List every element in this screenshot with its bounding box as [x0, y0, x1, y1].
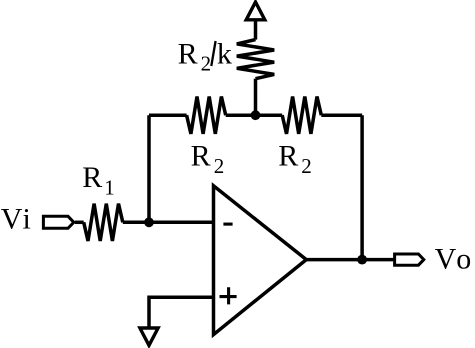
svg-text:2: 2	[214, 154, 225, 178]
wire: between left R2 and node B	[226, 113, 283, 117]
svg-text:k: k	[217, 37, 232, 70]
node C (output junction)	[357, 255, 367, 265]
resistor R1	[84, 204, 123, 241]
svg-text:R: R	[178, 37, 198, 70]
resistor R2 (right, horizontal)	[282, 97, 321, 134]
wire: R2/k down to node B	[254, 79, 258, 116]
wire: R1 to node A to op-amp inverting input	[123, 221, 214, 225]
wire: left vertical (feedback rail down to node A)	[147, 115, 151, 222]
svg-text:Vo: Vo	[435, 242, 472, 275]
op-amp minus sign	[223, 223, 232, 226]
ground symbol	[140, 328, 158, 345]
wire: power arrow to R2/k	[254, 20, 258, 40]
wire: feedback rail left segment (node A to R2 left)	[149, 113, 187, 117]
input port symbol (Vi)	[43, 216, 73, 228]
svg-text:R: R	[278, 140, 298, 173]
svg-text:Vi: Vi	[1, 202, 31, 235]
op-amp plus sign	[220, 287, 237, 304]
resistor R2 (left, horizontal)	[187, 97, 226, 134]
svg-text:R: R	[82, 161, 102, 194]
wire: op-amp output to output node and Vo port	[306, 258, 393, 262]
svg-text:2: 2	[301, 154, 312, 178]
wire: right vertical (feedback rail down to output node)	[360, 115, 364, 259]
svg-text:R: R	[191, 140, 211, 173]
node B (R2/R2/R2k junction)	[251, 110, 261, 120]
wire: Vi port to R1	[75, 221, 84, 225]
wire: right R2 to right rail corner	[321, 113, 362, 117]
wire: op-amp + input to ground corner	[149, 297, 214, 328]
node A (inverting input junction)	[144, 217, 154, 227]
svg-text:1: 1	[104, 176, 115, 200]
output port symbol (Vo)	[395, 254, 424, 265]
power symbol (up arrow)	[246, 2, 265, 20]
svg-text:2: 2	[201, 51, 212, 75]
op-amp U1 (triangle)	[214, 186, 307, 335]
resistor R2/k (vertical)	[237, 40, 274, 79]
